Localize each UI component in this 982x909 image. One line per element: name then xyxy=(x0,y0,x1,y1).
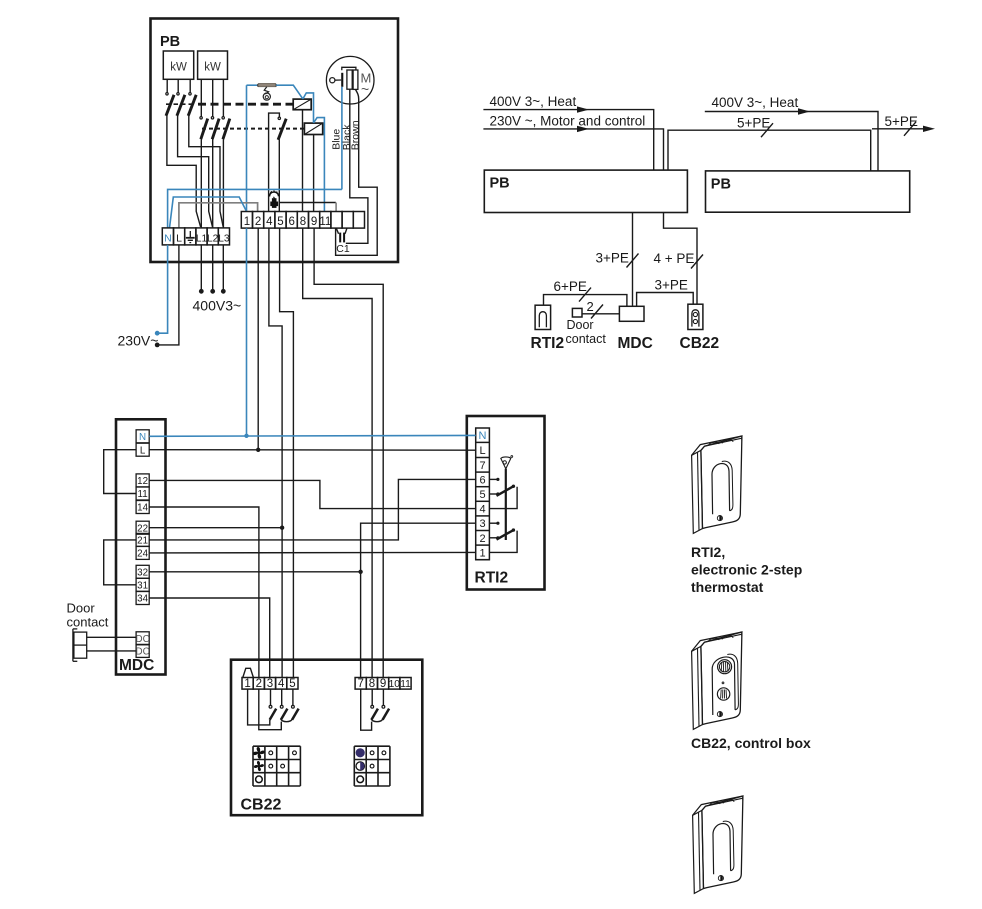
svg-text:14: 14 xyxy=(137,503,148,514)
svg-text:22: 22 xyxy=(137,523,148,534)
5+PE continuation arrow right xyxy=(872,128,923,130)
dashed mechanical linkage from K2 to relay coil 2 xyxy=(202,128,304,130)
svg-text:Door: Door xyxy=(567,318,594,332)
wire MDC 32 junction xyxy=(149,571,360,573)
svg-text:6+PE: 6+PE xyxy=(554,279,587,294)
CB22 terminal strip 7-11 xyxy=(355,678,366,690)
heater kW box 1 xyxy=(163,51,193,79)
svg-text:9: 9 xyxy=(311,216,317,228)
wire MDC 22 to heater riser junction xyxy=(149,527,282,529)
svg-text:3+PE: 3+PE xyxy=(596,251,629,266)
svg-text:RTI2: RTI2 xyxy=(475,570,509,587)
dashed mechanical linkage from K1 to relay coil 1 xyxy=(166,103,196,105)
CB22 control box xyxy=(231,660,422,816)
svg-text:C1: C1 xyxy=(336,243,350,255)
K1 pole wires with jogs to L1 L2 L3 xyxy=(167,116,201,227)
RTI2 internal 2-step thermostat mechanism xyxy=(489,478,496,480)
svg-text:5+PE: 5+PE xyxy=(885,114,918,129)
blue riser from terminal 1 to overheat thermostat xyxy=(246,85,248,211)
RTI2 thermostat device illustration xyxy=(692,450,703,533)
svg-text:2: 2 xyxy=(479,533,485,545)
6+PE link MDC to RTI2 xyxy=(544,295,627,307)
svg-text:DC: DC xyxy=(136,634,150,645)
wire PB terminal 5 down to CB22 terminal 5 xyxy=(280,228,294,677)
wire 400V feed into PB2 xyxy=(705,112,878,171)
CB22 terminal strip 1-5 xyxy=(242,678,253,690)
svg-text:RTI2,: RTI2, xyxy=(691,544,725,560)
motor black lead to capacitor xyxy=(346,89,368,243)
wire PB terminal 9 down to CB22 terminal 9 xyxy=(314,228,383,677)
svg-text:11: 11 xyxy=(138,489,148,500)
blue N wire to terminal 1 xyxy=(170,197,247,228)
RTI2 thermostat box xyxy=(467,416,545,590)
svg-text:8: 8 xyxy=(369,678,375,690)
svg-text:L2: L2 xyxy=(207,234,219,245)
MDC jumper L-11 xyxy=(104,450,136,494)
supply wires leaving PB: 400V3 with wire-end dots xyxy=(200,245,202,290)
4+PE drop to CB22 xyxy=(664,213,698,305)
svg-text:2: 2 xyxy=(587,299,594,314)
3+PE link MDC to CB22 xyxy=(637,293,694,307)
svg-text:thermostat: thermostat xyxy=(691,579,764,595)
PB supply terminal strip N L earth L1 L2 L3 xyxy=(162,228,173,245)
relay 2 wire to terminal 9 xyxy=(313,135,315,212)
thermal link over terminal 1 xyxy=(243,668,254,677)
svg-text:7: 7 xyxy=(357,678,363,690)
MDC jumper 21-31 xyxy=(104,540,136,585)
svg-text:400V 3~, Heat: 400V 3~, Heat xyxy=(490,94,577,109)
svg-text:32: 32 xyxy=(137,567,148,578)
relay 1 wire to terminal 8 xyxy=(302,110,304,212)
MDC block xyxy=(619,306,644,321)
svg-text:12: 12 xyxy=(137,476,148,487)
svg-text:2: 2 xyxy=(255,216,261,228)
svg-text:3: 3 xyxy=(479,518,485,530)
svg-text:N: N xyxy=(139,432,146,443)
capacitor C1 xyxy=(336,228,338,234)
svg-text:contact: contact xyxy=(67,615,109,630)
svg-text:7: 7 xyxy=(479,460,485,472)
svg-text:1: 1 xyxy=(479,547,485,559)
svg-text:CB22, control box: CB22, control box xyxy=(691,735,811,751)
svg-text:Brown: Brown xyxy=(350,120,362,150)
svg-text:6: 6 xyxy=(288,216,294,228)
third device illustration (room sensor) xyxy=(693,810,704,893)
A2 coil return wire (term 5 - coils - C1 cell) xyxy=(279,202,336,204)
wire MDC 24 to RTI2 1 xyxy=(149,551,476,554)
svg-text:electronic 2-step: electronic 2-step xyxy=(691,562,802,578)
heater kW box 2 xyxy=(198,51,228,79)
wire 230V feed into PB1 xyxy=(483,129,663,170)
svg-text:5: 5 xyxy=(277,216,283,228)
motor internal thermal contact and windings xyxy=(342,67,356,70)
svg-text:11: 11 xyxy=(400,679,411,690)
relay coil box 1 xyxy=(293,99,311,110)
svg-text:L: L xyxy=(176,233,182,245)
grey wire L terminal to terminal 2 xyxy=(179,203,258,228)
motor M1 circle xyxy=(326,56,374,104)
svg-text:230V~: 230V~ xyxy=(118,333,159,349)
svg-text:CB22: CB22 xyxy=(241,797,282,814)
svg-text:5: 5 xyxy=(479,489,485,501)
door contact block xyxy=(572,308,582,317)
PB1 block xyxy=(484,170,687,212)
svg-text:Door: Door xyxy=(67,601,96,616)
PB detail enclosure box xyxy=(151,19,399,263)
overheat thermostat (manual reset) symbol xyxy=(247,84,258,86)
CB22 block xyxy=(688,304,703,329)
svg-text:9: 9 xyxy=(380,678,386,690)
svg-text:34: 34 xyxy=(137,594,148,605)
svg-text:5: 5 xyxy=(289,678,295,690)
wire PB terminal 4 down to CB22 terminal 4 xyxy=(269,228,282,677)
motor brown lead loop to terminal cell xyxy=(336,89,378,255)
svg-text:PB: PB xyxy=(160,34,180,50)
CB22 fan-speed switch contacts (left group) xyxy=(270,689,272,705)
svg-text:L: L xyxy=(140,445,146,456)
svg-text:DC: DC xyxy=(136,647,150,658)
RTI2 terminal boxes xyxy=(476,428,490,560)
svg-text:6: 6 xyxy=(479,474,485,486)
CB22 control box device illustration xyxy=(692,646,703,729)
svg-text:4: 4 xyxy=(479,504,485,516)
svg-text:N: N xyxy=(479,430,487,442)
PB2 block xyxy=(706,171,910,212)
svg-text:kW: kW xyxy=(204,62,221,74)
svg-text:L: L xyxy=(479,445,485,457)
wire MDC 14 down to CB22 2 xyxy=(149,507,259,678)
relay coil box 2 xyxy=(304,123,322,134)
wire MDC 21 to RTI2 6 xyxy=(149,479,476,540)
svg-text:L1: L1 xyxy=(196,234,208,245)
PB numbered terminal strip 1 2 4 5 6 8 9 11 xyxy=(241,212,252,229)
CB22 heat-switch contacts (right group) xyxy=(371,689,373,705)
svg-text:24: 24 xyxy=(137,549,148,560)
svg-text:RTI2: RTI2 xyxy=(531,335,565,352)
svg-text:1: 1 xyxy=(244,678,250,690)
svg-text:11: 11 xyxy=(319,216,331,228)
svg-text:kW: kW xyxy=(170,62,187,74)
wire row N (blue) MDC to RTI2 xyxy=(149,434,476,437)
svg-text:400V3~: 400V3~ xyxy=(193,298,242,314)
svg-text:5+PE: 5+PE xyxy=(737,116,770,131)
thermal overload protector on terminals 4-5 xyxy=(270,192,279,197)
MDC terminal boxes xyxy=(136,430,149,443)
wire PB terminal 2 down to L line xyxy=(257,228,259,450)
svg-text:CB22: CB22 xyxy=(680,335,720,352)
blue N wiring to relay coils and terminal 11 xyxy=(276,85,303,99)
svg-text:3: 3 xyxy=(267,678,273,690)
svg-text:MDC: MDC xyxy=(618,335,653,352)
motor lead wires xyxy=(341,87,343,190)
blue wire PB terminal 1 down to N line xyxy=(246,228,248,435)
wire MDC 12 to RTI2 4 xyxy=(149,480,476,508)
svg-text:~: ~ xyxy=(361,81,369,97)
svg-text:MDC: MDC xyxy=(119,657,154,674)
230V supply: blue N and black L wire ends xyxy=(159,245,167,333)
svg-text:4 + PE: 4 + PE xyxy=(654,251,695,266)
svg-text:31: 31 xyxy=(137,580,148,591)
svg-text:10: 10 xyxy=(389,679,401,690)
svg-text:8: 8 xyxy=(300,216,306,228)
svg-text:1: 1 xyxy=(244,216,250,228)
wire RTI2 3 down to CB22 7 xyxy=(361,523,476,677)
svg-text:4: 4 xyxy=(278,678,285,690)
wire PB terminal 8 down to CB22 terminal 8 xyxy=(303,228,372,677)
svg-text:L3: L3 xyxy=(218,234,230,245)
door contact switch symbol xyxy=(74,632,87,658)
svg-text:contact: contact xyxy=(566,332,607,346)
changeover switch between terminals 4 and 5 xyxy=(269,113,280,211)
svg-text:400V 3~, Heat: 400V 3~, Heat xyxy=(712,95,799,110)
temperature sensor flag xyxy=(501,457,511,469)
3+PE drop PB1 to MDC xyxy=(632,213,634,307)
wire 400V feed into PB1 xyxy=(483,110,653,171)
wire row L MDC to RTI2 xyxy=(149,449,476,452)
door contact wires to DC terminals xyxy=(87,636,136,638)
RTI2 block xyxy=(535,305,551,329)
wire MDC 34 down to CB22 3 xyxy=(149,598,270,678)
svg-text:2: 2 xyxy=(256,678,262,690)
CB22 fan switch position table xyxy=(252,746,254,786)
contactor K2 contacts (3 poles) xyxy=(200,79,202,116)
svg-text:N: N xyxy=(164,233,172,245)
svg-text:3+PE: 3+PE xyxy=(655,278,688,293)
blue N horizontal wire xyxy=(168,189,342,228)
svg-text:230V ~, Motor and control: 230V ~, Motor and control xyxy=(490,113,646,128)
5+PE link PB1 to PB2 xyxy=(668,130,871,171)
contactor K1 contacts (3 poles) xyxy=(166,79,168,92)
earth symbol in strip xyxy=(189,231,191,238)
svg-text:21: 21 xyxy=(137,536,148,547)
svg-text:4: 4 xyxy=(266,216,273,228)
MDC controller box xyxy=(116,419,166,674)
svg-text:PB: PB xyxy=(711,176,731,192)
svg-text:PB: PB xyxy=(490,176,510,192)
CB22 heat switch position table xyxy=(353,746,355,786)
